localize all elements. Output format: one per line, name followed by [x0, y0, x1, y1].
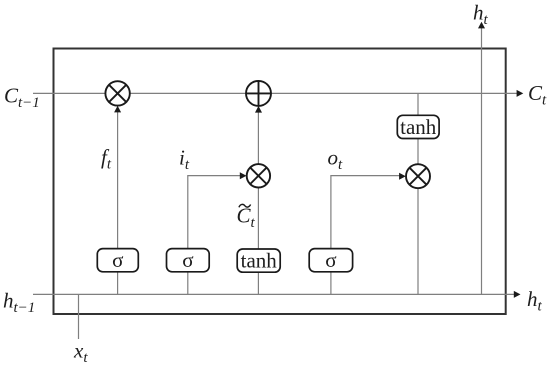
wire: input gate i_t up and right to multiply [188, 176, 241, 249]
wire: output gate o_t up and right to multiply [331, 176, 401, 249]
svg-text:σ: σ [182, 248, 193, 272]
arrowhead: h_t output top [478, 22, 485, 29]
wire: x_t input from bottom [78, 294, 80, 339]
arrowhead: into candidate multiply from left [240, 172, 247, 179]
pointwise multiply (output) [406, 164, 430, 188]
arrowhead: into forget multiply from below [114, 106, 121, 113]
wire: C line down to tanh box [417, 93, 419, 115]
gate box sigma (forget) [97, 248, 138, 272]
wire: output gate down to h line [330, 272, 332, 295]
arrowhead: h_t output right [514, 291, 521, 298]
gate box sigma (input) [167, 248, 210, 272]
wire: h_t up to top output [481, 27, 483, 294]
wire: forget gate down to h line [117, 272, 119, 295]
wire: input gate down to h line [187, 272, 189, 295]
label candidate C tilde t [237, 204, 256, 232]
pointwise add [246, 81, 271, 106]
svg-text:tanh: tanh [400, 115, 437, 139]
svg-text:σ: σ [112, 248, 123, 272]
wire: hidden-state h line (left to right) [33, 293, 515, 295]
wire: tanh box down to output multiply [417, 139, 419, 165]
svg-text:σ: σ [325, 248, 336, 272]
wire: candidate tanh down to h line [257, 272, 259, 294]
pointwise multiply (forget) [105, 81, 129, 105]
wire: candidate multiply up to add [257, 108, 259, 164]
gate box sigma (output) [309, 248, 352, 272]
arrowhead: into output multiply from left [399, 173, 406, 180]
wire: candidate tanh up to multiply [257, 188, 259, 250]
arrowhead: into add from below [255, 106, 262, 113]
wire: output multiply down to h line [417, 188, 419, 294]
svg-text:tanh: tanh [241, 248, 278, 272]
wire: cell-state C line (left to right) [33, 92, 517, 94]
arrowhead: C_t output right [517, 90, 524, 97]
LSTM cell body box [54, 49, 506, 315]
state box tanh (output squash) [397, 115, 439, 139]
wire: forget gate up to multiply [117, 108, 119, 248]
gate box tanh (candidate) [237, 248, 280, 272]
pointwise multiply (candidate) [247, 164, 270, 187]
